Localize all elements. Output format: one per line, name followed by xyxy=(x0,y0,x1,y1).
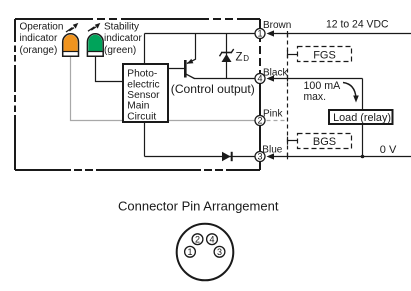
svg-text:(Control output): (Control output) xyxy=(171,82,255,96)
svg-text:12 to 24 VDC: 12 to 24 VDC xyxy=(326,19,389,31)
svg-text:4: 4 xyxy=(209,234,214,244)
svg-text:2: 2 xyxy=(257,116,262,126)
svg-text:D: D xyxy=(243,54,249,63)
svg-text:Black: Black xyxy=(263,67,288,78)
svg-text:Circuit: Circuit xyxy=(127,111,156,122)
svg-text:Load (relay): Load (relay) xyxy=(333,112,391,124)
svg-text:2: 2 xyxy=(195,234,200,244)
svg-text:0 V: 0 V xyxy=(380,144,397,156)
svg-text:BGS: BGS xyxy=(313,136,336,148)
svg-text:Brown: Brown xyxy=(263,20,291,31)
svg-text:max.: max. xyxy=(304,91,327,103)
svg-text:Operation: Operation xyxy=(20,21,64,32)
svg-text:Pink: Pink xyxy=(263,109,283,120)
svg-text:Main: Main xyxy=(127,101,149,112)
svg-text:Blue: Blue xyxy=(262,145,282,156)
svg-text:1: 1 xyxy=(187,247,192,257)
svg-text:FGS: FGS xyxy=(313,49,336,61)
svg-text:Stability: Stability xyxy=(104,21,139,32)
svg-text:Z: Z xyxy=(236,52,243,64)
svg-text:Sensor: Sensor xyxy=(127,90,160,101)
svg-text:3: 3 xyxy=(217,247,222,257)
svg-text:Connector Pin Arrangement: Connector Pin Arrangement xyxy=(118,198,279,213)
svg-text:(orange): (orange) xyxy=(20,45,58,56)
svg-text:electric: electric xyxy=(127,79,159,90)
svg-text:4: 4 xyxy=(257,74,262,84)
svg-text:1: 1 xyxy=(257,29,262,39)
svg-text:(green): (green) xyxy=(104,45,136,56)
svg-text:Photo-: Photo- xyxy=(127,69,157,80)
svg-text:indicator: indicator xyxy=(20,33,58,44)
svg-text:indicator: indicator xyxy=(104,33,142,44)
